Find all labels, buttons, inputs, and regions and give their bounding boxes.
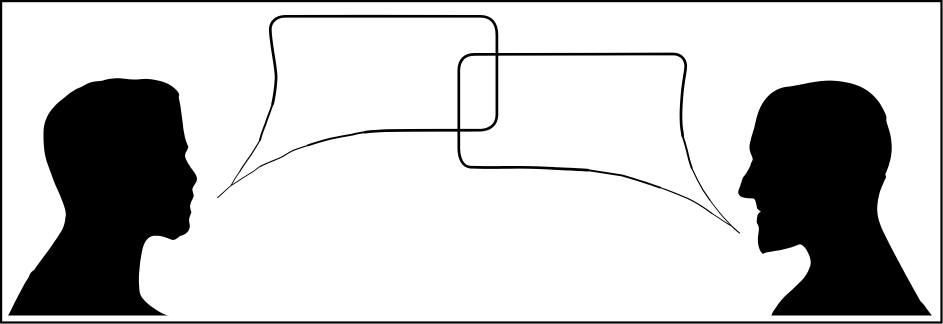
left speech bubble box — [270, 16, 497, 132]
right bubble right tail — [683, 136, 692, 168]
right head silhouette — [738, 81, 932, 316]
left bubble left tail — [260, 104, 273, 140]
right bubble bottom tail — [588, 170, 660, 187]
left bubble bottom tail — [308, 132, 365, 145]
right speech bubble box — [459, 54, 686, 170]
left head silhouette — [8, 78, 197, 315]
